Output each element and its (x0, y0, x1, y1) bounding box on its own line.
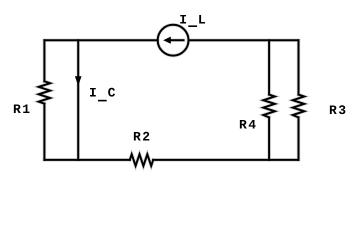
label I_L underscore reinforcement (188, 25, 197, 27)
svg-text:R3: R3 (329, 103, 348, 118)
svg-text:R2: R2 (133, 130, 152, 145)
soft underlay pass (39, 25, 305, 166)
svg-text:I L: I L (179, 13, 207, 28)
label I_C underscore reinforcement (98, 100, 107, 102)
main ink pass (39, 25, 305, 166)
svg-text:R4: R4 (239, 118, 258, 133)
svg-text:I C: I C (89, 86, 117, 101)
svg-text:R1: R1 (13, 102, 32, 117)
